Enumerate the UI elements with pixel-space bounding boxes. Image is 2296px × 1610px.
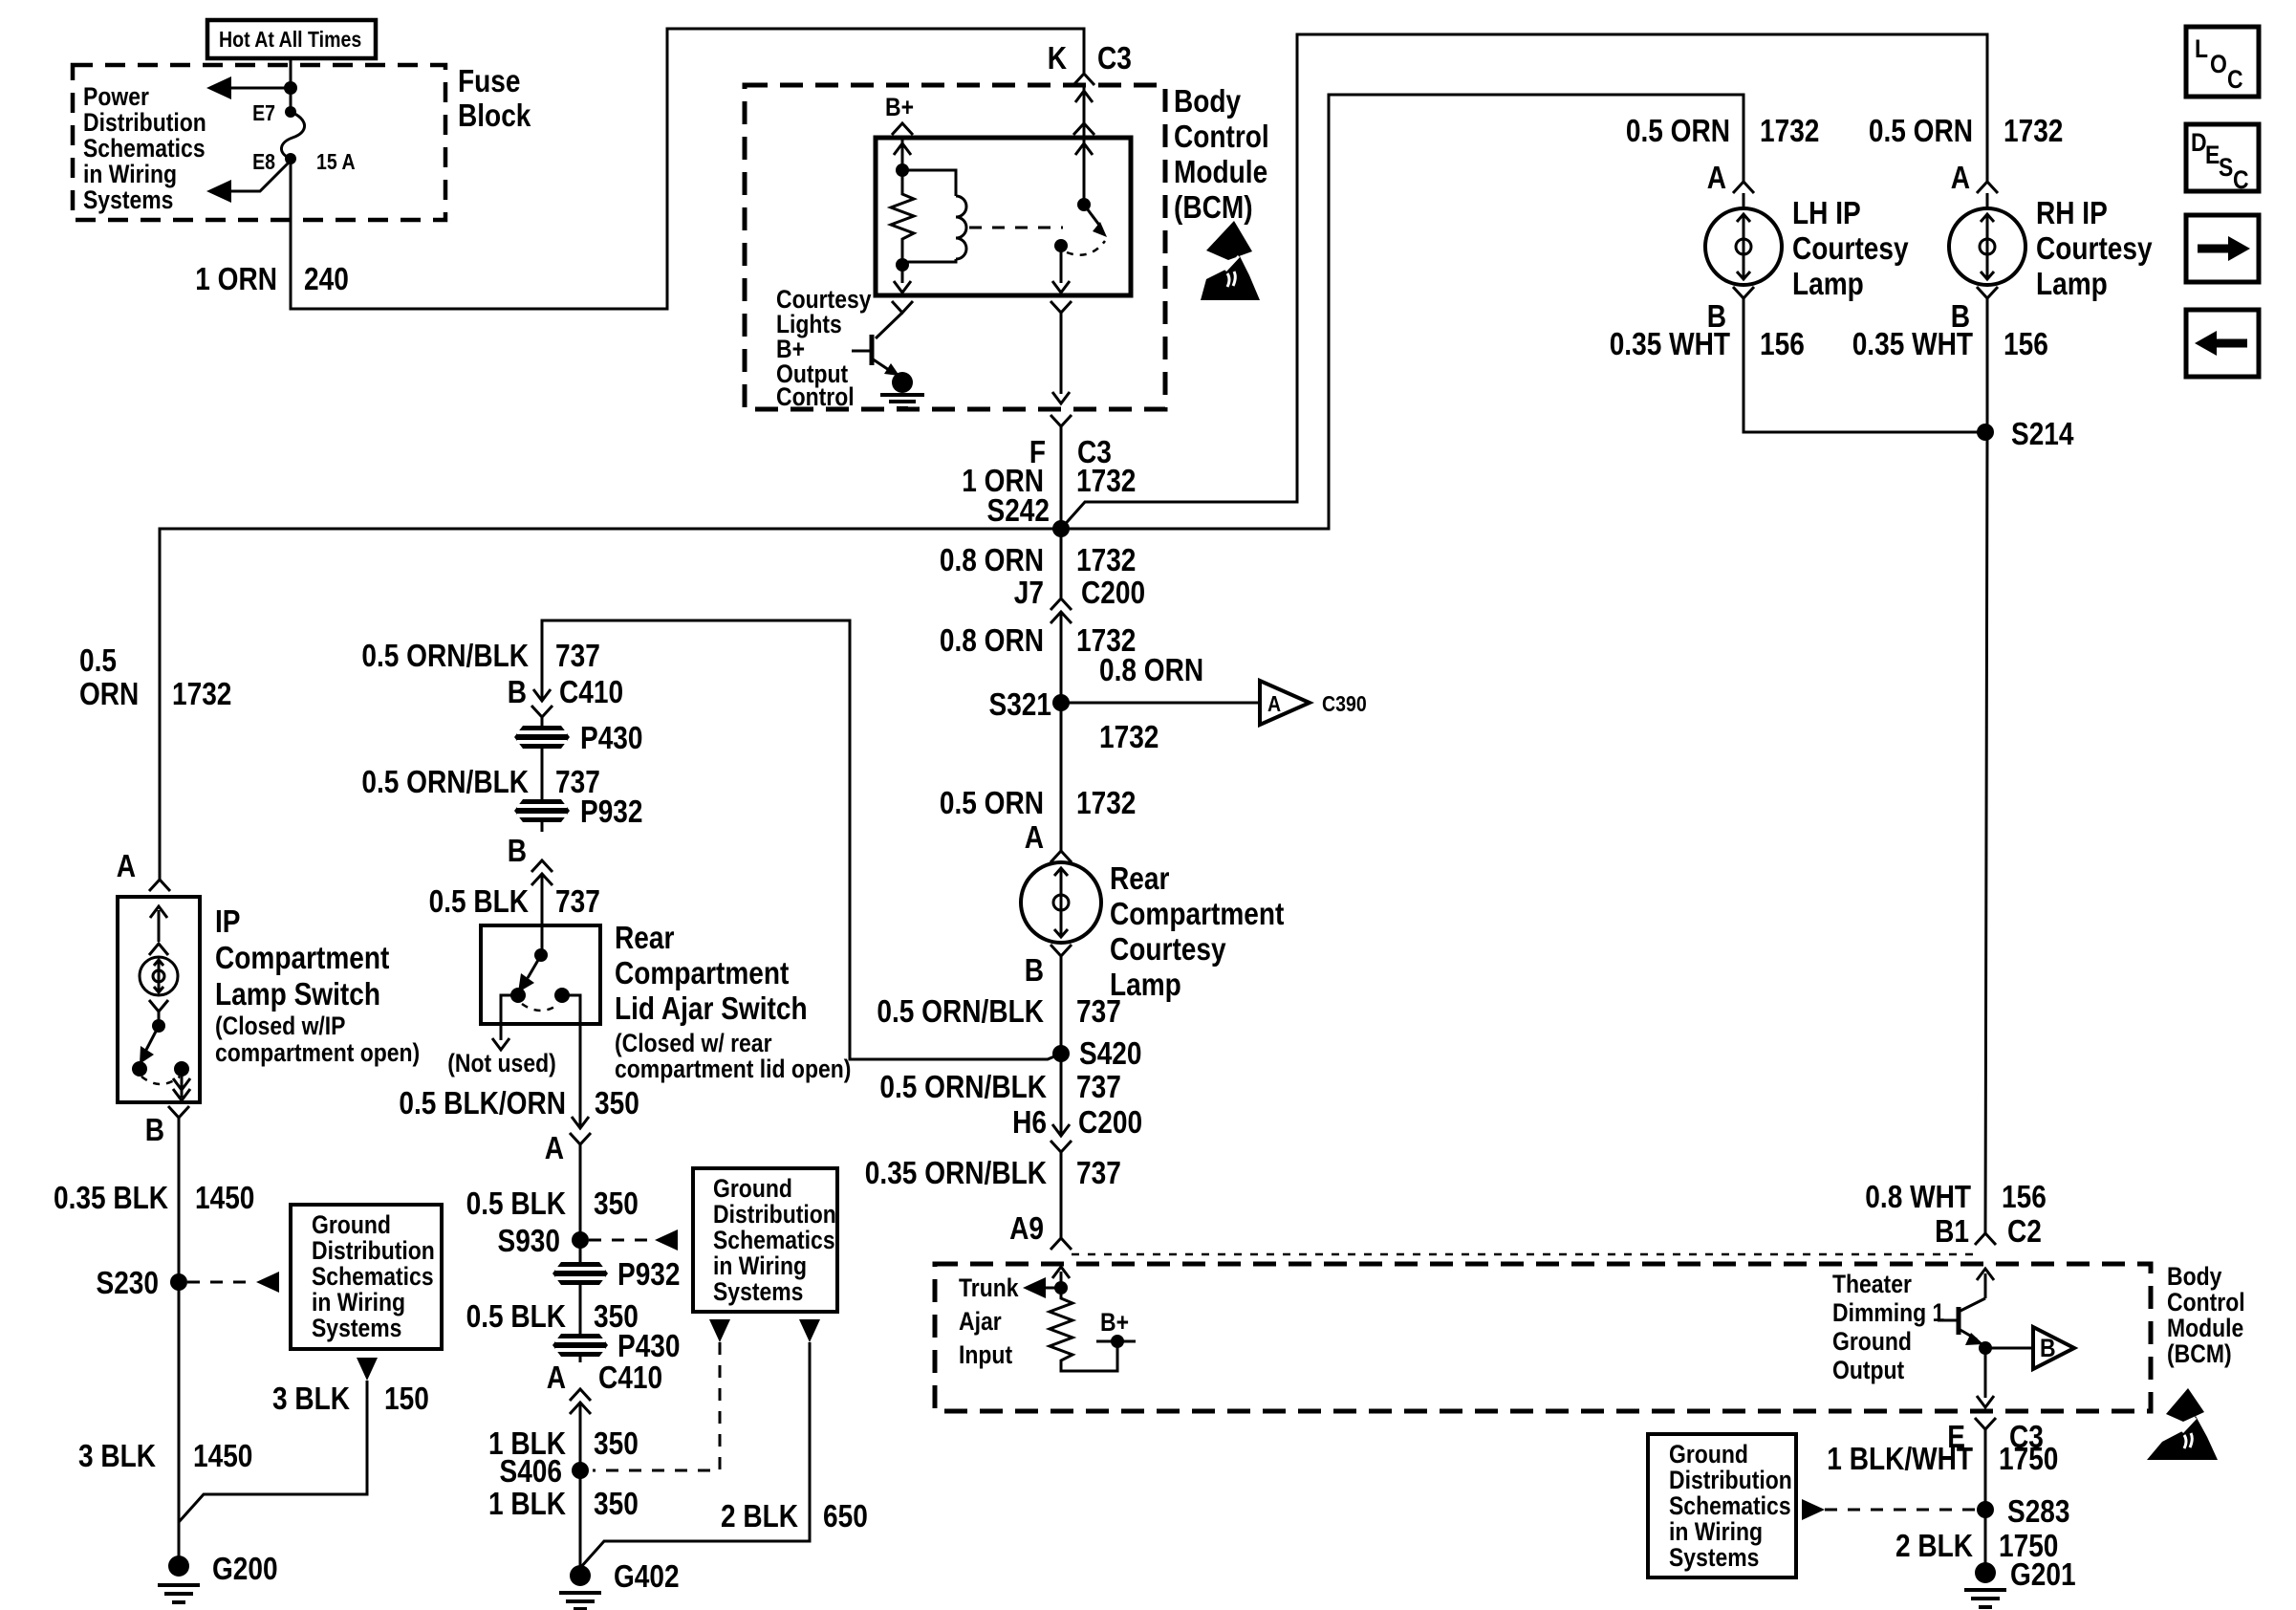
IP compartment lamp switch box [118, 897, 200, 1102]
relay switch travel arc dashed [1067, 241, 1105, 255]
relay box [876, 138, 1131, 295]
wire 3 BLK 150 to G200 [179, 1381, 367, 1522]
wire S321 down to rear lamp [1060, 703, 1063, 851]
label 0.8 ORN 1732 (below J7) [940, 622, 1137, 658]
svg-text:RH IP: RH IP [2036, 195, 2108, 230]
connector chevron at A [149, 880, 170, 891]
svg-text:Schematics: Schematics [1669, 1491, 1791, 1520]
svg-text:S420: S420 [1079, 1035, 1142, 1071]
resistor trunk ajar pull-up [1050, 1288, 1117, 1371]
svg-text:0.8 WHT: 0.8 WHT [1865, 1179, 1971, 1214]
label 1 BLK 350 (below S406) [488, 1486, 639, 1521]
arrow at BCM edge bottom [1052, 392, 1070, 403]
svg-text:0.5 ORN/BLK: 0.5 ORN/BLK [361, 764, 529, 799]
svg-text:0.5: 0.5 [79, 642, 117, 678]
label 0.5 ORN/BLK 737 (below S420) [879, 1069, 1120, 1104]
RH lamp label [2036, 195, 2153, 301]
label 0.8 ORN 1732 (above J7) [940, 542, 1137, 577]
wire S242 branch to RH lamp (upper) [1061, 34, 1987, 529]
label 0.5 ORN 1732 (RH) [1869, 113, 2064, 148]
svg-text:1732: 1732 [1760, 113, 1819, 148]
svg-text:G200: G200 [212, 1551, 278, 1586]
svg-text:Systems: Systems [713, 1277, 803, 1306]
arrow down to relay box edge (right) [1052, 281, 1070, 293]
svg-text:compartment lid open): compartment lid open) [615, 1055, 851, 1083]
svg-text:0.8 ORN: 0.8 ORN [940, 542, 1044, 577]
ground distribution note box (middle) [693, 1168, 837, 1312]
svg-text:Courtesy: Courtesy [1110, 931, 1226, 967]
svg-text:B: B [2040, 1334, 2056, 1362]
connector arrows at A / down [570, 1117, 591, 1240]
arrow up inside relay (switch side) [1075, 143, 1093, 155]
svg-text:0.35 WHT: 0.35 WHT [1610, 326, 1730, 361]
arrow trunk ajar input [1023, 1277, 1061, 1298]
svg-text:A: A [1951, 160, 1970, 195]
svg-text:Control: Control [1174, 119, 1269, 154]
svg-text:A9: A9 [1009, 1210, 1044, 1246]
label 0.35 ORN/BLK 737 [865, 1155, 1121, 1190]
BCM label top [1174, 83, 1269, 225]
wire S930 to P932 lower [579, 1240, 582, 1264]
ESD sensitivity symbol top [1201, 221, 1260, 300]
svg-text:C410: C410 [598, 1360, 662, 1395]
connector chevron LH A [1733, 182, 1754, 193]
chevron above relay box (K side) [1073, 123, 1094, 135]
svg-text:0.5 ORN: 0.5 ORN [940, 785, 1044, 820]
svg-text:Control: Control [2167, 1288, 2245, 1316]
svg-text:737: 737 [555, 638, 600, 673]
label 0.8 ORN / 1732 (branch) [1099, 652, 1203, 754]
label 0.5 ORN 1732 (left column) [79, 642, 231, 711]
chevron inside IP switch [149, 944, 168, 955]
wire 2 BLK 650 to G402 [580, 1342, 810, 1568]
svg-text:1 BLK/WHT: 1 BLK/WHT [1827, 1441, 1973, 1476]
svg-text:737: 737 [1076, 993, 1121, 1029]
svg-text:LH IP: LH IP [1792, 195, 1861, 230]
svg-text:C390: C390 [1322, 691, 1367, 716]
svg-text:Body: Body [2167, 1262, 2221, 1291]
svg-text:1732: 1732 [2004, 113, 2063, 148]
svg-text:J7: J7 [1014, 575, 1044, 610]
wire rear lamp B to S420 [1060, 956, 1063, 1054]
svg-text:C200: C200 [1081, 575, 1145, 610]
label 1 BLK 350 (above S406) [488, 1425, 639, 1461]
ground distribution note box (left) [291, 1205, 442, 1349]
svg-text:H6: H6 [1012, 1104, 1047, 1140]
connector chevron rear lamp A [1051, 851, 1072, 862]
label 2 BLK 1750 [1895, 1528, 2058, 1563]
svg-text:A: A [1707, 160, 1726, 195]
chevron below LH lamp [1733, 287, 1754, 298]
svg-text:C410: C410 [559, 674, 623, 709]
ground G201 [1964, 1556, 2076, 1607]
label 0.5 BLK 350 (between grommets) [466, 1298, 639, 1334]
svg-text:350: 350 [594, 1186, 639, 1221]
svg-text:0.8 ORN: 0.8 ORN [940, 622, 1044, 658]
splice S321 [989, 686, 1071, 722]
svg-text:1732: 1732 [172, 676, 231, 711]
trunk ajar input node [1054, 1281, 1068, 1295]
chevron below relay box (output) [1051, 301, 1072, 313]
svg-text:C200: C200 [1078, 1104, 1142, 1140]
svg-text:650: 650 [823, 1498, 868, 1534]
label 1 ORN 240 [195, 261, 349, 296]
ground G200 [158, 1551, 278, 1602]
trunk ajar input label [959, 1273, 1019, 1369]
wire S242 branch to LH lamp (lower) [1061, 95, 1744, 529]
svg-text:Ground: Ground [1669, 1440, 1748, 1469]
dashed reference from S930 [589, 1229, 678, 1251]
svg-text:Trunk: Trunk [959, 1273, 1019, 1302]
B+ node (trunk ajar) [1096, 1308, 1136, 1348]
svg-text:Distribution: Distribution [83, 108, 206, 137]
svg-text:Lamp Switch: Lamp Switch [215, 976, 380, 1012]
wire IP switch B to G200 [178, 1118, 181, 1566]
IP switch travel arc dashed [141, 1077, 180, 1084]
label 3 BLK 1450 [78, 1438, 252, 1473]
svg-text:A: A [545, 1130, 564, 1165]
wire collector up to B1 [1977, 1269, 1994, 1298]
svg-text:B: B [145, 1112, 164, 1147]
svg-text:Distribution: Distribution [713, 1200, 836, 1229]
svg-text:E: E [2205, 141, 2220, 169]
fuse E8 terminal [285, 153, 296, 164]
fuse F? E7 terminal [285, 106, 296, 118]
relay coil feed arrow up (left) [894, 143, 911, 155]
svg-text:P932: P932 [617, 1256, 681, 1292]
chevron below IP switch box [168, 1106, 189, 1118]
svg-text:1450: 1450 [193, 1438, 252, 1473]
svg-text:ORN: ORN [79, 676, 139, 711]
svg-text:P430: P430 [617, 1328, 681, 1363]
svg-text:156: 156 [2004, 326, 2048, 361]
svg-text:737: 737 [1076, 1069, 1121, 1104]
svg-text:Systems: Systems [312, 1314, 401, 1342]
svg-text:S283: S283 [2007, 1493, 2070, 1529]
svg-text:0.5 ORN/BLK: 0.5 ORN/BLK [879, 1069, 1047, 1104]
svg-text:0.5 BLK: 0.5 BLK [429, 883, 530, 919]
RH IP courtesy lamp [1949, 193, 2025, 285]
connector arrows at C410 [531, 689, 552, 724]
label 1 BLK/WHT 1750 [1827, 1441, 2058, 1476]
svg-text:C: C [2233, 165, 2249, 194]
svg-text:S930: S930 [498, 1223, 561, 1258]
arrow up inside bcm at K [1075, 91, 1093, 102]
svg-text:(Closed w/ rear: (Closed w/ rear [615, 1029, 772, 1057]
label 0.5 ORN 1732 [940, 785, 1137, 820]
svg-text:1732: 1732 [1099, 719, 1159, 754]
wire F to S242 [1060, 426, 1063, 529]
label 0.5 ORN/BLK 737 (above S420) [877, 993, 1120, 1029]
connector chevron RH A [1977, 182, 1998, 193]
svg-text:Compartment: Compartment [1110, 896, 1284, 931]
svg-text:P430: P430 [580, 720, 643, 755]
node junction at power feed [284, 81, 297, 95]
svg-text:Theater: Theater [1832, 1270, 1912, 1298]
wire P430 to P932 [541, 751, 544, 801]
lid switch contacts [510, 988, 526, 1003]
svg-text:E7: E7 [252, 100, 275, 125]
label 0.5 ORN/BLK 737 (lid switch top) [361, 638, 599, 673]
body control module (BCM) dashed box bottom [935, 1264, 2151, 1411]
wire S420 branch to lid ajar switch [542, 620, 1061, 1059]
transistor Q1 courtesy output driver [852, 313, 902, 376]
svg-text:G201: G201 [2010, 1556, 2076, 1592]
svg-text:Output: Output [1832, 1356, 1904, 1384]
svg-text:Distribution: Distribution [312, 1236, 435, 1265]
svg-text:1732: 1732 [1076, 542, 1136, 577]
arrow right box [2186, 215, 2259, 282]
wire RH lamp B to S214 and down to BCM B1 [1985, 298, 1987, 1233]
svg-text:compartment open): compartment open) [215, 1038, 420, 1067]
pass-through grommet P430 [514, 720, 643, 755]
svg-text:0.5 ORN: 0.5 ORN [1869, 113, 1973, 148]
rear lamp label [1110, 860, 1284, 1002]
DESC box [2186, 124, 2259, 194]
svg-text:IP: IP [215, 903, 241, 939]
splice S930 [498, 1223, 590, 1258]
svg-text:L: L [2195, 34, 2208, 63]
svg-text:S406: S406 [500, 1453, 563, 1489]
arrow down to relay box edge [894, 281, 911, 293]
label 0.5 BLK 737 [429, 883, 600, 919]
dashed reference from S230 [187, 1272, 279, 1293]
label 0.5 ORN/BLK 737 (mid) [361, 764, 599, 799]
buffer B output [1985, 1327, 2074, 1369]
svg-text:Module: Module [1174, 154, 1267, 189]
svg-text:G402: G402 [614, 1558, 680, 1594]
connector chevron at K [1073, 74, 1094, 85]
chevron below BCM at E [1975, 1418, 1996, 1429]
svg-text:S: S [2219, 153, 2233, 182]
svg-text:150: 150 [384, 1381, 429, 1416]
lid switch arm [518, 948, 548, 992]
label 1 ORN 1732 [962, 463, 1136, 498]
svg-text:Ajar: Ajar [959, 1307, 1002, 1336]
svg-text:S214: S214 [2011, 416, 2074, 451]
svg-text:Rear: Rear [1110, 860, 1170, 896]
node coil bottom junction [896, 258, 909, 272]
connector chevron at A9 [1051, 1238, 1072, 1250]
splice S406 [500, 1453, 590, 1489]
relay coil L1 [902, 170, 966, 262]
splice S242 [987, 492, 1071, 537]
wire coil return to transistor [901, 265, 904, 283]
svg-text:Lamp: Lamp [1792, 266, 1864, 301]
svg-text:2 BLK: 2 BLK [1895, 1528, 1973, 1563]
arrow from contact to box edge [173, 1069, 190, 1100]
svg-text:156: 156 [1760, 326, 1805, 361]
svg-text:B: B [508, 674, 527, 709]
svg-text:0.5 ORN: 0.5 ORN [1626, 113, 1730, 148]
svg-text:in Wiring: in Wiring [312, 1288, 405, 1316]
wire LH lamp B to S214 [1744, 298, 1985, 432]
ESD sensitivity symbol bottom [2147, 1388, 2218, 1460]
svg-text:Hot At All Times: Hot At All Times [219, 27, 361, 52]
svg-text:Compartment: Compartment [615, 955, 789, 990]
node B+ internal supply [885, 93, 914, 135]
wire not-used contact [447, 995, 556, 1077]
splice S283 [1977, 1493, 2070, 1529]
wire S420 to H6 connector [1060, 1054, 1063, 1136]
svg-text:737: 737 [555, 883, 600, 919]
arrow to power distribution (bottom) [206, 161, 291, 203]
resistor R (relay suppression) [891, 170, 914, 265]
svg-text:0.35 WHT: 0.35 WHT [1852, 326, 1973, 361]
label 0.35 WHT 156 (LH) [1610, 326, 1805, 361]
svg-text:1732: 1732 [1076, 463, 1136, 498]
svg-text:Dimming 1: Dimming 1 [1832, 1298, 1944, 1327]
svg-text:15 A: 15 A [316, 149, 356, 174]
svg-text:Lid Ajar Switch: Lid Ajar Switch [615, 990, 808, 1026]
svg-text:Fuse: Fuse [458, 63, 521, 98]
wire lid switch output [562, 995, 580, 1128]
svg-text:S230: S230 [97, 1265, 160, 1300]
svg-text:Ground: Ground [713, 1174, 792, 1203]
svg-text:3 BLK: 3 BLK [78, 1438, 156, 1473]
svg-text:0.8 ORN: 0.8 ORN [1099, 652, 1203, 687]
svg-text:0.5 BLK: 0.5 BLK [466, 1186, 567, 1221]
svg-text:in Wiring: in Wiring [1669, 1517, 1763, 1546]
splice S420 [1052, 1035, 1142, 1071]
svg-text:737: 737 [1076, 1155, 1121, 1190]
svg-text:240: 240 [304, 261, 349, 296]
svg-text:S321: S321 [989, 686, 1052, 722]
label 0.5 BLK/ORN 350 [399, 1085, 639, 1120]
label 0.5 ORN 1732 (LH) [1626, 113, 1820, 148]
off-page connector A to C390 [1260, 681, 1367, 725]
svg-text:0.5 BLK/ORN: 0.5 BLK/ORN [399, 1085, 566, 1120]
ground distribution note box (right) [1648, 1434, 1796, 1577]
fuse 15A element [281, 112, 304, 159]
lid switch travel arc dashed [522, 1004, 559, 1011]
wire S321 branch to C390 [1061, 702, 1258, 705]
svg-text:Distribution: Distribution [1669, 1466, 1792, 1494]
svg-text:C3: C3 [1097, 40, 1132, 76]
svg-text:O: O [2210, 50, 2227, 78]
svg-text:Schematics: Schematics [312, 1262, 434, 1291]
chevron below RH lamp [1977, 287, 1998, 298]
svg-text:S242: S242 [987, 492, 1051, 528]
svg-text:B1: B1 [1935, 1213, 1969, 1249]
svg-text:(BCM): (BCM) [2167, 1339, 2232, 1368]
svg-text:(BCM): (BCM) [1174, 189, 1253, 225]
wire fuse output 1 ORN 240 to BCM pin K [291, 29, 1084, 309]
svg-text:B+: B+ [1100, 1308, 1129, 1337]
svg-text:P932: P932 [580, 794, 643, 829]
wire E to G201 [1984, 1429, 1987, 1573]
relay switch pivot wire from K [1083, 85, 1086, 205]
svg-text:A: A [1025, 819, 1044, 855]
ground internal (BCM) [880, 372, 924, 408]
IP switch contacts [132, 1061, 147, 1077]
dashed reference to S283 [1802, 1499, 1975, 1520]
svg-text:Courtesy: Courtesy [2036, 230, 2153, 266]
BCM label bottom [2167, 1262, 2245, 1368]
arrow up inside IP switch [150, 906, 167, 942]
chevron below rear lamp [1051, 945, 1072, 956]
chevron below BCM at F [1051, 415, 1072, 426]
IP switch label [215, 903, 420, 1067]
connector chevrons at J7 [1051, 598, 1072, 703]
arrow up inside BCM at A9 [1052, 1267, 1070, 1288]
dashed wire to S406 [593, 1342, 720, 1470]
label 0.35 BLK 1450 [54, 1180, 254, 1215]
theater dimming label [1832, 1270, 1944, 1384]
splice S214 [1977, 416, 2074, 451]
label 0.5 BLK 350 (above S930) [466, 1186, 639, 1221]
svg-text:Power: Power [83, 82, 149, 111]
wire relay output down to BCM edge [1060, 313, 1063, 394]
svg-text:Compartment: Compartment [215, 940, 389, 975]
svg-text:350: 350 [594, 1425, 639, 1461]
wire main run S242 to rear lamp [1060, 529, 1063, 598]
svg-text:Control: Control [776, 382, 855, 411]
svg-text:B: B [508, 833, 527, 868]
svg-text:K: K [1048, 40, 1067, 76]
LOC box [2186, 27, 2259, 97]
svg-text:1450: 1450 [195, 1180, 254, 1215]
svg-text:Courtesy: Courtesy [1792, 230, 1909, 266]
svg-text:1732: 1732 [1076, 785, 1136, 820]
arrow left box [2186, 310, 2259, 377]
connector chevrons (C410 bottom) [570, 1389, 591, 1470]
svg-text:in Wiring: in Wiring [83, 160, 177, 188]
lid ajar switch label [615, 920, 851, 1083]
hot at all times label box [207, 20, 376, 58]
svg-text:0.35 BLK: 0.35 BLK [54, 1180, 168, 1215]
svg-text:Ground: Ground [1832, 1327, 1912, 1356]
arrow down at BCM bottom edge [1977, 1396, 1994, 1407]
triangle output right (middle box) [799, 1319, 820, 1342]
label 2 BLK 650 [721, 1498, 868, 1534]
svg-text:156: 156 [2002, 1179, 2047, 1214]
label 3 BLK 150 [272, 1381, 429, 1416]
svg-text:A: A [1267, 691, 1281, 716]
svg-text:350: 350 [594, 1486, 639, 1521]
svg-text:Rear: Rear [615, 920, 675, 955]
dashed actuation link [969, 227, 1063, 229]
svg-text:Systems: Systems [83, 185, 173, 214]
svg-text:Systems: Systems [1669, 1543, 1759, 1572]
svg-text:(Not used): (Not used) [447, 1049, 556, 1077]
lamp inside IP switch [140, 957, 178, 995]
power distribution note text [83, 82, 206, 214]
wire common contact down [1060, 246, 1063, 283]
rear compartment lid ajar switch box [481, 925, 600, 1024]
ground G402 [559, 1558, 680, 1609]
body control module (BCM) dashed box top [745, 85, 1165, 409]
LH IP courtesy lamp [1705, 193, 1782, 285]
svg-text:Ground: Ground [312, 1210, 391, 1239]
svg-text:in Wiring: in Wiring [713, 1251, 807, 1280]
connector arrows at H6 [1051, 1124, 1072, 1238]
svg-text:Schematics: Schematics [713, 1226, 835, 1254]
splice S230 [97, 1265, 188, 1300]
svg-text:2 BLK: 2 BLK [721, 1498, 798, 1534]
LH lamp label [1792, 195, 1909, 301]
IP switch arm [140, 1012, 165, 1064]
svg-text:Block: Block [458, 98, 531, 133]
svg-text:0.5 BLK: 0.5 BLK [466, 1298, 567, 1334]
chevron below relay box (transistor side) [892, 301, 913, 313]
svg-text:B+: B+ [885, 93, 914, 121]
wire B+ into relay [901, 138, 904, 170]
svg-text:C2: C2 [2007, 1213, 2042, 1249]
pass-through grommet P932 (lower) [552, 1256, 681, 1336]
svg-text:0.5 ORN/BLK: 0.5 ORN/BLK [877, 993, 1044, 1029]
svg-text:1 BLK: 1 BLK [488, 1486, 566, 1521]
